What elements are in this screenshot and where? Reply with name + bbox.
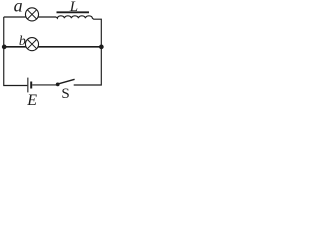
svg-text:a: a	[14, 0, 23, 15]
svg-text:L: L	[69, 0, 78, 15]
svg-text:S: S	[61, 86, 69, 102]
svg-text:b: b	[19, 34, 26, 49]
svg-text:E: E	[26, 92, 37, 105]
